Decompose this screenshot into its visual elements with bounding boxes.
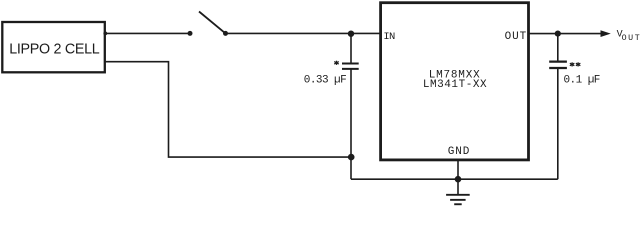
- svg-text:IN: IN: [383, 31, 395, 43]
- svg-text:LM341T-XX: LM341T-XX: [423, 79, 487, 91]
- svg-text:OUT: OUT: [622, 34, 640, 43]
- svg-text:GND: GND: [448, 146, 471, 158]
- svg-text:0.1 µF: 0.1 µF: [564, 74, 600, 86]
- svg-text:LIPPO 2 CELL: LIPPO 2 CELL: [9, 42, 100, 58]
- svg-text:OUT: OUT: [505, 31, 528, 43]
- svg-text:0.33 µF: 0.33 µF: [304, 75, 346, 87]
